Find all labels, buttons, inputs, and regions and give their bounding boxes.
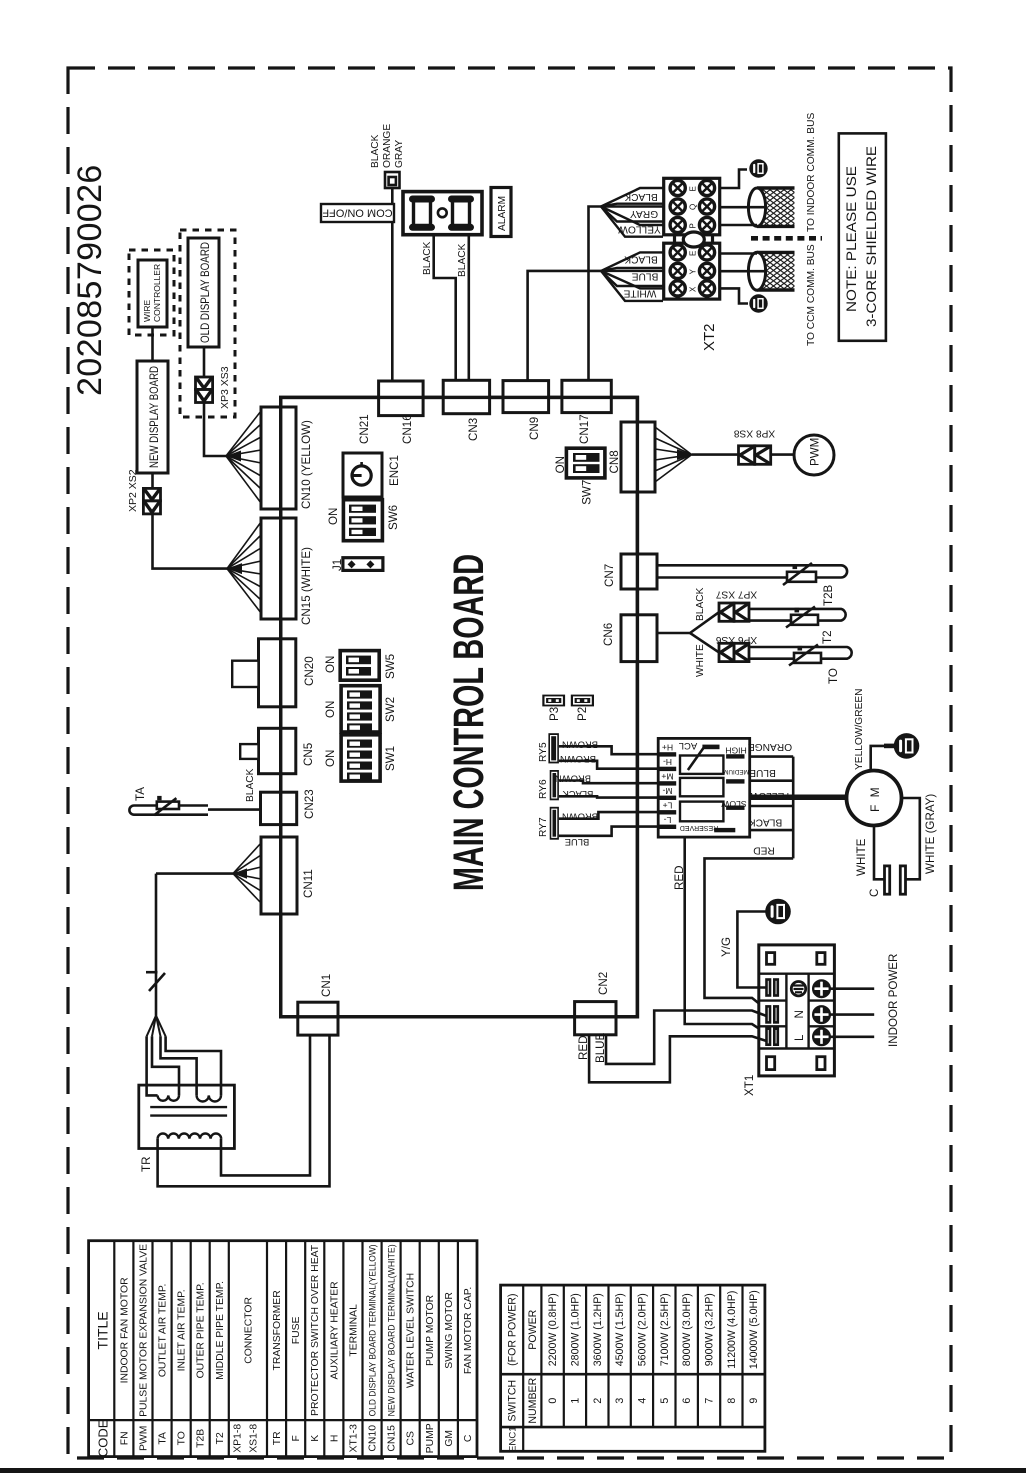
svg-text:Q: Q <box>689 204 698 210</box>
svg-text:RY5: RY5 <box>538 742 549 762</box>
svg-text:TITLE: TITLE <box>95 1311 111 1349</box>
connector CN17 <box>562 380 611 412</box>
relay wires to fan speed block <box>559 746 658 754</box>
svg-text:BROWN: BROWN <box>560 754 596 765</box>
svg-text:BLACK: BLACK <box>562 789 593 800</box>
svg-text:SW6: SW6 <box>387 505 400 530</box>
connector CN11 <box>261 837 297 914</box>
fan-out to CN11 <box>233 843 261 903</box>
old display board box <box>188 238 219 347</box>
svg-text:F: F <box>291 1435 302 1441</box>
svg-text:P2: P2 <box>576 707 589 721</box>
svg-text:F M: F M <box>868 785 882 812</box>
svg-text:SW2: SW2 <box>384 697 397 722</box>
wire XP2/XS2 down to CN15 fan <box>153 514 228 569</box>
motor capacitor circuit <box>902 798 920 879</box>
fan-out to CN15 <box>227 522 261 613</box>
svg-text:6: 6 <box>681 1398 693 1404</box>
svg-text:XP6 XS6: XP6 XS6 <box>715 634 757 645</box>
wire from XP3 to CN10 fan <box>204 403 226 457</box>
wire CN11 junction down to fuse and TR <box>155 874 158 1016</box>
svg-text:RED: RED <box>673 866 686 890</box>
old display board dotted box <box>180 230 235 417</box>
svg-text:H: H <box>329 1435 340 1443</box>
svg-text:3600W (1.2HP): 3600W (1.2HP) <box>592 1293 604 1366</box>
connector CN9 <box>503 381 549 413</box>
thermistor TA <box>129 798 208 815</box>
svg-text:TO INDOOR COMM. BUS: TO INDOOR COMM. BUS <box>806 113 817 232</box>
svg-text:TO CCM COMM. BUS: TO CCM COMM. BUS <box>806 244 817 346</box>
svg-text:H+: H+ <box>662 743 673 753</box>
svg-text:7: 7 <box>704 1398 716 1404</box>
svg-text:GM: GM <box>444 1430 455 1447</box>
svg-text:CN9: CN9 <box>528 417 541 440</box>
primary lead wires <box>147 1036 221 1095</box>
svg-text:YELLOW: YELLOW <box>748 790 791 801</box>
svg-text:FUSE: FUSE <box>291 1316 302 1344</box>
svg-text:OLD DISPLAY BOARD TERMINAL(YEL: OLD DISPLAY BOARD TERMINAL(YELLOW) <box>368 1244 379 1416</box>
connector CN10 (YELLOW) <box>261 407 296 509</box>
svg-text:5600W (2.0HP): 5600W (2.0HP) <box>637 1293 649 1366</box>
thermistor TO probe <box>749 645 852 666</box>
wire to CN11 fan apex <box>156 872 233 875</box>
svg-text:3-CORE SHIELDED WIRE: 3-CORE SHIELDED WIRE <box>863 146 879 327</box>
connector CN3 <box>443 380 489 413</box>
svg-text:AUXILIARY HEATER: AUXILIARY HEATER <box>329 1281 340 1380</box>
svg-text:BROWN: BROWN <box>562 812 598 823</box>
relay RY7 <box>550 807 559 840</box>
svg-text:CN21: CN21 <box>358 414 371 444</box>
svg-text:L-: L- <box>664 815 672 825</box>
dip switch SW2 <box>341 686 380 732</box>
svg-text:BLUE: BLUE <box>631 270 658 281</box>
wire clamp slots rows <box>767 980 778 1045</box>
svg-text:BLUE: BLUE <box>565 837 590 848</box>
RED wire from selector block to XT1 L row <box>685 837 767 1033</box>
svg-text:SW1: SW1 <box>384 746 397 771</box>
svg-text:P3: P3 <box>548 707 561 721</box>
svg-text:Y/G: Y/G <box>720 937 733 957</box>
svg-text:M+: M+ <box>661 772 673 782</box>
svg-text:TO: TO <box>827 668 840 684</box>
svg-text:OUTLET AIR TEMP.: OUTLET AIR TEMP. <box>158 1284 169 1378</box>
svg-text:CN5: CN5 <box>302 743 315 766</box>
svg-text:OUTER PIPE TEMP.: OUTER PIPE TEMP. <box>196 1282 207 1378</box>
svg-text:PWM: PWM <box>809 438 822 466</box>
connector XP7 XS7 <box>719 603 749 621</box>
wire to PWM <box>771 453 794 456</box>
svg-text:RED: RED <box>577 1036 590 1060</box>
svg-text:CN8: CN8 <box>608 450 621 473</box>
svg-text:BLUE: BLUE <box>594 1032 607 1063</box>
svg-text:BLACK: BLACK <box>457 243 468 277</box>
svg-text:PUMP MOTOR: PUMP MOTOR <box>425 1294 436 1366</box>
svg-text:CONTROLLER: CONTROLLER <box>152 264 162 322</box>
svg-text:BLUE: BLUE <box>749 767 776 778</box>
svg-text:9000W (3.2HP): 9000W (3.2HP) <box>704 1293 716 1366</box>
svg-text:XS1-8: XS1-8 <box>249 1424 260 1453</box>
core lines <box>150 1106 227 1108</box>
encoder ENC1 <box>343 453 382 497</box>
svg-text:XT1: XT1 <box>743 1075 756 1096</box>
svg-text:RY7: RY7 <box>538 817 549 837</box>
PWM motor circle <box>794 435 834 475</box>
svg-text:11200W (4.0HP): 11200W (4.0HP) <box>726 1291 738 1369</box>
output ladder to motor bus <box>750 757 794 859</box>
svg-text:XP7 XS7: XP7 XS7 <box>715 588 757 599</box>
fan-out to CN10 <box>226 411 261 503</box>
svg-text:WATER LEVEL SWITCH: WATER LEVEL SWITCH <box>406 1273 417 1388</box>
thermistor T2B probe <box>657 563 847 585</box>
joining ellipse between blocks <box>673 235 676 243</box>
dip switch SW6 <box>343 500 382 541</box>
secondary winding <box>158 1134 222 1139</box>
svg-text:TA: TA <box>158 1432 169 1445</box>
svg-text:ORANGE: ORANGE <box>382 124 393 168</box>
svg-text:ENC1: ENC1 <box>507 1426 518 1452</box>
connector CN23 <box>261 792 297 824</box>
connector CN15 (WHITE) <box>261 518 296 619</box>
svg-text:ON: ON <box>324 701 337 718</box>
connector XP3 XS3 <box>196 377 213 403</box>
svg-text:SW5: SW5 <box>384 654 397 679</box>
dip switch SW1 <box>341 735 380 781</box>
svg-text:RESERVED: RESERVED <box>680 824 718 831</box>
svg-text:BLACK: BLACK <box>624 253 658 264</box>
svg-text:L+: L+ <box>663 800 673 810</box>
svg-text:2200W (0.8HP): 2200W (0.8HP) <box>547 1293 559 1366</box>
transformer TR fan-out from main wire <box>147 1016 166 1037</box>
selector block outline <box>658 738 750 837</box>
svg-text:CN16: CN16 <box>401 414 414 444</box>
black wires from contact box to CN3 <box>434 235 456 381</box>
svg-text:2800W (1.0HP): 2800W (1.0HP) <box>569 1293 581 1366</box>
svg-text:NEW DISPLAY BOARD: NEW DISPLAY BOARD <box>148 366 161 468</box>
secondary wires to CN1 <box>158 1035 330 1186</box>
svg-text:BLACK: BLACK <box>695 587 706 621</box>
svg-text:NUMBER: NUMBER <box>527 1377 539 1423</box>
upper wire flags to CN17 <box>601 188 663 237</box>
svg-text:CN17: CN17 <box>578 414 591 444</box>
jumper J1 <box>343 558 383 571</box>
svg-text:ALARM: ALARM <box>497 196 508 231</box>
svg-text:ENC1: ENC1 <box>388 455 401 486</box>
fuse F <box>149 973 165 991</box>
lower wire flags to CN9 <box>601 252 663 301</box>
svg-text:XP1-8: XP1-8 <box>233 1424 244 1453</box>
svg-text:1: 1 <box>569 1398 581 1404</box>
indoor power wires <box>830 987 874 990</box>
wire to CN17 <box>589 207 602 381</box>
svg-text:COM ON/OFF: COM ON/OFF <box>322 207 393 219</box>
svg-text:CN23: CN23 <box>303 789 316 819</box>
svg-text:CS: CS <box>406 1431 417 1446</box>
svg-text:WHITE: WHITE <box>623 287 656 298</box>
svg-text:CN15 (WHITE): CN15 (WHITE) <box>300 547 313 625</box>
svg-text:BLACK: BLACK <box>422 241 433 275</box>
wire controller box <box>138 260 167 327</box>
connector CN16 <box>379 381 424 416</box>
svg-text:XP8 XS8: XP8 XS8 <box>733 428 775 439</box>
connector XP2 XS2 <box>143 488 160 513</box>
svg-text:M-: M- <box>662 786 672 796</box>
svg-text:T2B: T2B <box>196 1429 207 1448</box>
svg-text:YELLOW/GREEN: YELLOW/GREEN <box>854 688 865 770</box>
wire to CN9 <box>528 271 601 381</box>
wire <box>151 327 154 361</box>
wire to XP8 XS8 <box>692 453 739 456</box>
svg-text:TRANSFORMER: TRANSFORMER <box>272 1290 283 1371</box>
dip switch SW7 <box>566 448 605 478</box>
board outline re-stroke (passes through edge connectors) <box>281 397 638 1016</box>
primary windings <box>158 1095 179 1100</box>
svg-text:ON: ON <box>324 750 337 767</box>
svg-text:XT2: XT2 <box>701 323 718 351</box>
svg-text:CN15: CN15 <box>387 1425 398 1452</box>
svg-text:MAIN CONTROL BOARD: MAIN CONTROL BOARD <box>445 554 493 891</box>
new display board box <box>137 361 168 473</box>
earth screw (middle row1) <box>791 982 805 996</box>
svg-text:CN2: CN2 <box>597 972 610 995</box>
thermistor T2 probe <box>749 607 846 628</box>
wire down to CN16 <box>391 188 394 381</box>
RED wire from ladder bus to XT1 N row <box>705 858 794 1009</box>
svg-text:XP2 XS2: XP2 XS2 <box>127 469 139 512</box>
svg-text:BLACK: BLACK <box>245 768 256 802</box>
wire <box>151 473 154 488</box>
XT2 lower block <box>664 243 720 299</box>
svg-text:WIRE: WIRE <box>142 299 152 322</box>
svg-text:TR: TR <box>140 1157 153 1172</box>
svg-text:FN: FN <box>119 1431 130 1445</box>
svg-text:NEW DISPLAY BOARD TERMINAL(WHI: NEW DISPLAY BOARD TERMINAL(WHITE) <box>387 1244 398 1416</box>
svg-text:MIDDLE PIPE TEMP.: MIDDLE PIPE TEMP. <box>215 1281 226 1380</box>
svg-text:Y: Y <box>689 268 698 274</box>
jumper P2 <box>571 695 594 707</box>
relay RY5 <box>548 733 559 763</box>
svg-text:9: 9 <box>748 1398 760 1404</box>
section divider lines <box>759 973 835 975</box>
inner contact rects <box>680 756 723 822</box>
svg-text:PWM: PWM <box>138 1426 149 1451</box>
svg-text:C: C <box>463 1434 474 1442</box>
wire <box>203 347 206 377</box>
ground wire yellow/green <box>871 746 884 771</box>
svg-text:K: K <box>310 1435 321 1442</box>
svg-text:GRAY: GRAY <box>630 208 658 219</box>
svg-text:BROWN: BROWN <box>555 774 591 785</box>
wire BLUE from CN2 to XT1 N <box>606 1011 767 1064</box>
transformer TR box <box>139 1085 235 1148</box>
svg-text:CONNECTOR: CONNECTOR <box>243 1297 254 1364</box>
right pin bars <box>714 754 744 832</box>
svg-text:8000W (3.0HP): 8000W (3.0HP) <box>681 1293 693 1366</box>
svg-text:ORANGE: ORANGE <box>748 741 792 752</box>
lower shielded cable to ccm comm bus <box>720 252 795 312</box>
svg-text:CN6: CN6 <box>602 623 615 646</box>
dashed cable continuation <box>751 236 822 241</box>
connector plug (black/orange/gray) <box>385 172 400 188</box>
svg-text:CN10: CN10 <box>368 1425 379 1452</box>
connector CN8 <box>621 422 655 492</box>
main board rect <box>281 397 638 1016</box>
svg-text:RED: RED <box>753 845 775 856</box>
svg-text:TA: TA <box>134 787 147 801</box>
svg-text:X: X <box>689 286 698 292</box>
svg-text:(FOR POWER): (FOR POWER) <box>506 1294 518 1366</box>
svg-text:WHITE: WHITE <box>695 644 706 677</box>
svg-text:INLET AIR TEMP.: INLET AIR TEMP. <box>177 1289 188 1371</box>
connector CN1 <box>298 1002 338 1035</box>
split wire to XP7/XS7 and XP6/XS6 <box>657 612 719 633</box>
svg-text:T2: T2 <box>821 630 834 644</box>
svg-text:N: N <box>793 1010 806 1018</box>
svg-text:L: L <box>793 1034 806 1041</box>
connector CN7 <box>621 554 657 589</box>
svg-text:3: 3 <box>614 1398 626 1404</box>
svg-text:XP3 XS3: XP3 XS3 <box>219 366 231 409</box>
svg-text:ON: ON <box>324 656 337 673</box>
thick yellow wire to fan motor <box>750 794 847 800</box>
svg-text:YELLOW: YELLOW <box>618 224 661 235</box>
wire TA to CN23 <box>208 808 261 811</box>
svg-text:GRAY: GRAY <box>394 140 405 168</box>
svg-text:PULSE MOTOR EXPANSION VALVE: PULSE MOTOR EXPANSION VALVE <box>138 1244 149 1417</box>
svg-text:POWER: POWER <box>527 1309 539 1349</box>
svg-text:PROTECTOR SWITCH OVER HEAT: PROTECTOR SWITCH OVER HEAT <box>310 1244 321 1416</box>
svg-text:2: 2 <box>592 1398 604 1404</box>
svg-text:E: E <box>689 186 698 191</box>
connector XP6 XS6 <box>719 643 749 661</box>
wire controller dotted box <box>129 250 174 335</box>
svg-text:OLD DISPLAY BOARD: OLD DISPLAY BOARD <box>199 242 212 343</box>
left pin bars <box>658 752 676 829</box>
COM ON/OFF label box <box>321 204 394 222</box>
svg-text:TR: TR <box>272 1431 283 1445</box>
svg-text:CN7: CN7 <box>603 564 616 587</box>
svg-text:C: C <box>868 889 881 897</box>
dip switch SW5 <box>340 651 379 681</box>
motor FM <box>847 771 902 826</box>
svg-text:BROWN: BROWN <box>562 740 598 751</box>
svg-text:T2: T2 <box>215 1432 226 1444</box>
svg-text:HIGH: HIGH <box>725 746 746 756</box>
svg-text:INDOOR POWER: INDOOR POWER <box>887 954 900 1047</box>
svg-text:CODE: CODE <box>96 1419 111 1457</box>
svg-text:PUMP: PUMP <box>425 1423 436 1453</box>
bottom page edge line <box>0 1468 1026 1473</box>
svg-text:CN3: CN3 <box>467 418 480 441</box>
svg-text:XT1-3: XT1-3 <box>348 1424 359 1453</box>
svg-text:BLACK: BLACK <box>370 134 381 168</box>
svg-text:0: 0 <box>547 1398 559 1404</box>
svg-text:CN11: CN11 <box>302 869 315 898</box>
svg-text:INDOOR FAN MOTOR: INDOOR FAN MOTOR <box>119 1277 130 1384</box>
fan-out from CN8 <box>655 427 692 482</box>
svg-text:E: E <box>689 251 698 256</box>
svg-text:H-: H- <box>663 757 672 767</box>
svg-text:WHITE: WHITE <box>855 838 868 876</box>
svg-text:SLOW: SLOW <box>720 799 746 809</box>
XT2 upper block <box>664 178 720 235</box>
svg-text:5: 5 <box>659 1398 671 1404</box>
svg-text:T2B: T2B <box>822 584 835 606</box>
svg-text:ACL: ACL <box>679 740 697 751</box>
svg-text:J1: J1 <box>331 559 344 571</box>
wire RED from CN2 to XT1 L <box>589 1035 766 1083</box>
connector CN2 <box>575 1002 616 1035</box>
svg-text:14000W (5.0HP): 14000W (5.0HP) <box>748 1290 760 1369</box>
connector CN6 <box>621 615 657 662</box>
svg-text:7100W (2.5HP): 7100W (2.5HP) <box>659 1293 671 1366</box>
connector XP8 XS8 <box>739 446 771 465</box>
svg-text:ON: ON <box>327 508 340 525</box>
mounting slots <box>767 953 826 1070</box>
svg-text:SWITCH: SWITCH <box>506 1380 518 1422</box>
svg-text:RY6: RY6 <box>538 779 549 799</box>
svg-text:CN10 (YELLOW): CN10 (YELLOW) <box>300 420 313 509</box>
relay RY6 <box>550 770 559 800</box>
svg-text:FAN MOTOR CAP.: FAN MOTOR CAP. <box>463 1287 474 1374</box>
svg-text:WHITE (GRAY): WHITE (GRAY) <box>924 794 937 874</box>
jumper P3 <box>542 695 565 707</box>
svg-text:202085790026: 202085790026 <box>71 164 109 396</box>
Y/G earth wire with clamp <box>765 899 791 925</box>
svg-text:TERMINAL: TERMINAL <box>348 1304 359 1357</box>
svg-text:8: 8 <box>726 1398 738 1404</box>
alarm box <box>491 188 511 237</box>
capacitor C plates <box>885 866 890 894</box>
svg-text:TO: TO <box>177 1431 188 1445</box>
svg-text:4500W (1.5HP): 4500W (1.5HP) <box>614 1293 626 1366</box>
connector CN5 <box>259 728 296 773</box>
relay contact box <box>403 192 482 235</box>
svg-text:ON: ON <box>554 456 567 473</box>
svg-text:MEDIUM: MEDIUM <box>723 768 749 775</box>
svg-text:BLACK: BLACK <box>624 191 658 202</box>
svg-text:CN20: CN20 <box>303 656 316 686</box>
svg-text:CN1: CN1 <box>320 974 333 997</box>
svg-text:SWING MOTOR: SWING MOTOR <box>444 1292 455 1369</box>
connector CN20 <box>259 639 296 707</box>
svg-text:NOTE: PLEASE USE: NOTE: PLEASE USE <box>843 166 859 312</box>
svg-text:BLACK: BLACK <box>749 817 783 828</box>
XT1 outline <box>759 945 835 1076</box>
note box <box>839 133 886 340</box>
svg-text:P: P <box>689 223 698 228</box>
svg-text:SW7: SW7 <box>581 480 594 505</box>
svg-text:4: 4 <box>637 1398 649 1404</box>
